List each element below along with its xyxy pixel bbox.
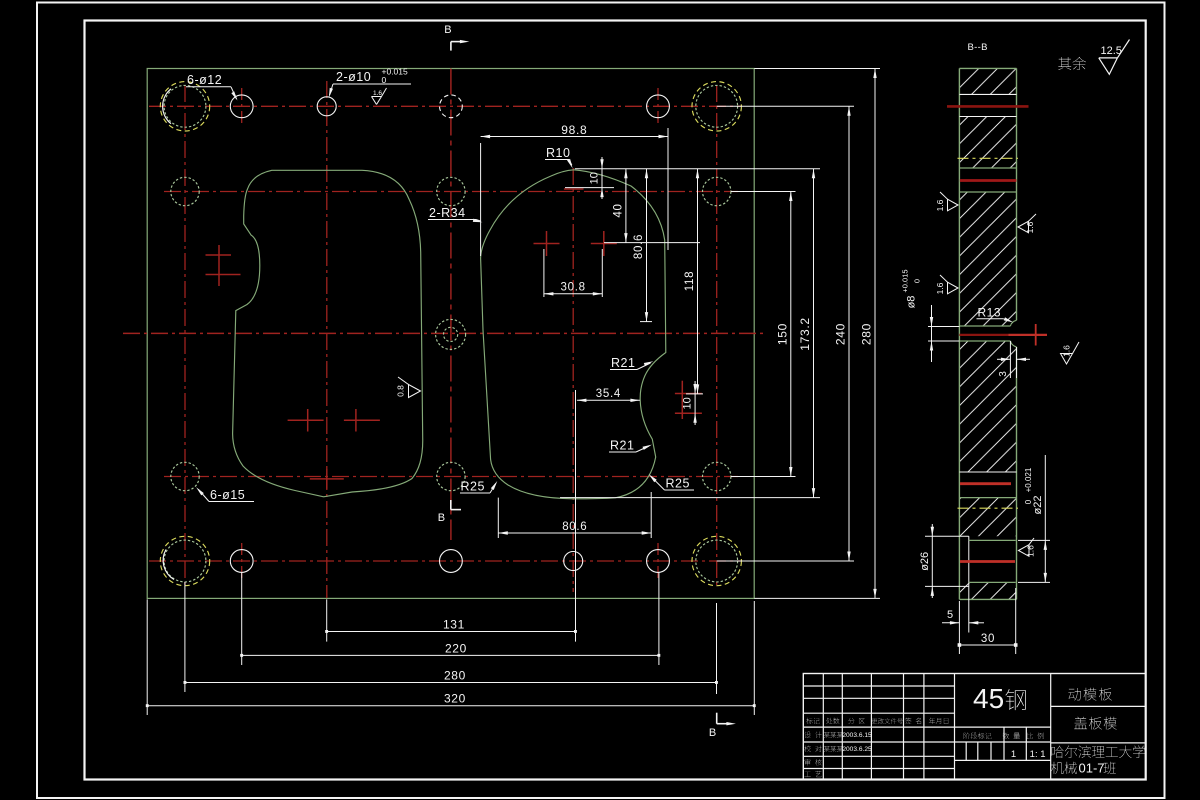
svg-text:1.6: 1.6 — [1026, 545, 1036, 557]
dim 10 offset pair — [694, 381, 696, 425]
counterbore top-right ø26 dashed — [692, 82, 741, 131]
red cross R13 center — [1035, 324, 1037, 346]
svg-text:30.8: 30.8 — [561, 282, 586, 294]
hole ø10 top x=326.7 — [317, 97, 336, 116]
svg-text:+0.015: +0.015 — [901, 269, 910, 292]
section red centerline y=334.9 — [959, 334, 1008, 336]
class 机械01-7班 — [1051, 762, 1077, 774]
dim 30.8 — [543, 249, 545, 297]
section red line y=561.5 — [960, 560, 1015, 563]
roughness 1.6 at ø22 — [1019, 545, 1030, 557]
section left edge — [958, 68, 960, 599]
hole ø12 bottom x=451 — [440, 550, 463, 573]
svg-text:1.6: 1.6 — [1062, 345, 1072, 357]
roughness 0.8 on left cavity edge — [409, 385, 421, 398]
hole ø12 bottom x=241.7 — [230, 550, 253, 573]
svg-text:80.6: 80.6 — [562, 521, 587, 533]
centerline col x=658 bottom — [657, 543, 659, 580]
centerline col x=241.7 bottom — [241, 543, 243, 580]
svg-text:R21: R21 — [610, 439, 634, 453]
centerline row1 y=106 — [149, 105, 742, 107]
centerline main horizontal — [123, 332, 766, 334]
svg-text:ø26: ø26 — [919, 552, 931, 571]
title 盖板模 — [1074, 717, 1116, 730]
center mark left of cavity upper — [206, 254, 232, 256]
section feature line y=94.4 — [959, 93, 1016, 95]
svg-text:150: 150 — [775, 323, 789, 345]
title block row labels — [804, 732, 821, 739]
dim 240 — [717, 105, 854, 107]
guide hole top-right ø22 — [696, 85, 738, 127]
dim 5 counterbore depth — [969, 622, 984, 624]
svg-text:6-ø12: 6-ø12 — [187, 73, 222, 87]
dim 35.4 — [577, 399, 640, 401]
svg-text:R25: R25 — [666, 477, 690, 491]
section feature line y=168 — [959, 167, 1016, 169]
plate outline 320x280 — [147, 69, 754, 599]
svg-text:R25: R25 — [461, 480, 485, 494]
section right edge lower — [1016, 347, 1018, 599]
center mark left cavity bottom — [310, 478, 344, 480]
svg-text:280: 280 — [860, 323, 874, 345]
section feature line y=497.6 — [959, 497, 1016, 499]
dim ø26 — [931, 524, 933, 598]
centerline col x=573 right cavity — [572, 168, 574, 592]
hole ø12 top x=241.7 — [230, 95, 253, 118]
dim 131 — [326, 599, 328, 641]
dim 220 — [241, 572, 243, 665]
title block middle verticals — [1003, 727, 1005, 760]
hole ø15 row2 right — [703, 177, 731, 205]
section line B-B x=451 — [450, 69, 452, 541]
section feature line y=116.5 — [959, 116, 1016, 118]
svg-text:98.8: 98.8 — [561, 123, 587, 137]
section ø22 hole top edge — [969, 539, 1016, 541]
svg-text:30: 30 — [981, 633, 995, 645]
svg-text:1.6: 1.6 — [1025, 221, 1035, 233]
dim 118 — [686, 393, 703, 395]
hole ø12 top middle dashed — [440, 95, 463, 118]
svg-text:1: 1: 1: 1 — [1030, 749, 1046, 760]
section counterbore ø26 top edge — [925, 535, 969, 537]
centerline col x=326.7 left cavity — [326, 81, 328, 598]
note 其余 12.5 roughness — [1058, 57, 1086, 70]
svg-text:1.6: 1.6 — [935, 282, 945, 294]
guide hole top-left ø22 — [164, 85, 206, 127]
svg-text:2-R34: 2-R34 — [429, 206, 466, 220]
svg-text:320: 320 — [444, 692, 466, 706]
hole ø15 row2 middle — [437, 177, 465, 205]
title block left table rows — [803, 685, 954, 687]
svg-text:2003.6.25: 2003.6.25 — [842, 746, 872, 753]
white arc bottom-left hole — [163, 550, 174, 580]
counterbore bottom-left ø26 dashed — [160, 536, 209, 585]
section yellow dashed y=158.3 — [958, 157, 1019, 159]
center mark left of cavity lower — [206, 274, 241, 276]
dim 3 notch depth — [1009, 341, 1011, 378]
svg-text:ø22: ø22 — [1032, 496, 1044, 515]
section top edge — [959, 67, 1016, 69]
title block outline — [803, 674, 1145, 780]
svg-text:240: 240 — [834, 323, 848, 345]
svg-text:B: B — [444, 24, 451, 36]
section yellow dashed y=508.2 — [958, 507, 1019, 509]
svg-text:5: 5 — [947, 609, 953, 621]
title block header row texts — [806, 718, 819, 724]
svg-text:B--B: B--B — [968, 42, 988, 53]
hole ø12 bottom x=658 — [647, 550, 670, 573]
centerline col x=241.7 top — [241, 88, 243, 125]
left cavity outline — [233, 170, 423, 497]
centerline col x=716.7 — [716, 85, 718, 588]
section arrow B bottom-right — [716, 713, 718, 724]
svg-text:35.4: 35.4 — [596, 388, 621, 400]
section ø22 hole bottom edge — [969, 581, 1016, 583]
title block main verticals — [954, 674, 956, 780]
right cavity outline — [481, 170, 666, 499]
section red line y=483.7 — [960, 482, 1011, 485]
white arc top-left hole — [163, 89, 171, 124]
section jog mark B bottom-left — [450, 500, 452, 510]
dim ø8 +0.015 — [928, 326, 959, 328]
svg-text:B: B — [438, 512, 445, 524]
svg-text:1.6: 1.6 — [373, 90, 382, 97]
hole ø15 row4 right — [703, 462, 731, 490]
svg-text:01-7: 01-7 — [1079, 761, 1105, 776]
counterbore top-left ø26 dashed — [160, 82, 209, 131]
hole ø15 row2 left — [171, 177, 199, 205]
hole ø15 row4 middle — [437, 462, 465, 490]
centerline col x=658 top — [657, 88, 659, 125]
section counterbore step x=968.8 — [968, 536, 970, 632]
roughness mark under 2-ø10 — [372, 96, 382, 98]
svg-text:10: 10 — [682, 397, 694, 409]
dim 10 below peak — [565, 187, 614, 189]
svg-text:131: 131 — [443, 618, 465, 632]
svg-text:45: 45 — [973, 683, 1004, 714]
svg-text:R13: R13 — [978, 306, 1002, 320]
hole ø15 row4 left — [171, 462, 199, 490]
roughness 1.6 right of section upper — [1018, 221, 1029, 233]
center mark pair in left cavity — [288, 419, 324, 421]
center hole ø8 — [444, 327, 458, 341]
svg-text:0: 0 — [1024, 499, 1033, 504]
section right edge upper — [1016, 68, 1018, 320]
section bottom edge — [959, 598, 1016, 600]
section red line y=180.5 — [960, 179, 1017, 182]
title 动模板 — [1068, 688, 1111, 701]
svg-text:118: 118 — [684, 271, 696, 291]
hole ø10 bottom x=573 — [564, 552, 583, 571]
ext line y=168.7 from R10 peak — [575, 168, 820, 170]
svg-text:B: B — [709, 727, 716, 739]
dim 30 section width — [1015, 588, 1017, 654]
svg-text:2003.6.15: 2003.6.15 — [842, 732, 872, 739]
svg-text:3: 3 — [998, 371, 1009, 377]
centerline row4 y=476.5 — [164, 476, 738, 478]
svg-text:10: 10 — [589, 172, 601, 184]
svg-text:2-ø10: 2-ø10 — [336, 70, 371, 84]
center mark R10 center — [564, 188, 584, 190]
roughness 1.6 right below R13 — [1061, 354, 1073, 365]
svg-text:1: 1 — [1011, 749, 1016, 760]
svg-text:R10: R10 — [546, 146, 570, 160]
section red line y=106.4 — [947, 105, 1029, 108]
hole ø12 top x=658 — [647, 95, 670, 118]
roughness 1.6 left of section at ø8 — [948, 282, 959, 294]
svg-text:1.6: 1.6 — [935, 199, 945, 211]
svg-text:80.6: 80.6 — [633, 234, 645, 259]
centerline col x=185 — [184, 85, 186, 588]
title block middle rows — [955, 726, 1051, 728]
section ø8 hole top edge with R13 arc — [959, 325, 1010, 327]
center mark pair in right cavity — [534, 243, 560, 245]
svg-text:ø8: ø8 — [906, 296, 918, 309]
title block middle labels — [964, 733, 992, 740]
roughness 1.6 left of section upper — [948, 199, 959, 211]
section counterbore ø26 bottom edge — [925, 585, 969, 587]
school 哈尔滨理工大学 — [1052, 745, 1145, 758]
svg-text:0: 0 — [913, 279, 922, 283]
dim 150 — [731, 191, 796, 193]
section feature line y=192 — [959, 191, 1016, 193]
centerline row5 y=561 — [149, 560, 742, 562]
svg-text:40: 40 — [613, 203, 625, 217]
section feature line y=472 — [959, 471, 1016, 473]
dim 280 right — [754, 68, 880, 70]
dim 80.6 bottom — [497, 498, 499, 538]
center marks 10-offset right cavity — [675, 393, 702, 395]
guide hole bottom-left ø22 — [164, 540, 206, 582]
svg-text:280: 280 — [444, 669, 466, 683]
counterbore bottom-right ø26 dashed — [692, 536, 741, 585]
ext line y=243.5 — [604, 242, 700, 244]
svg-text:R21: R21 — [611, 356, 635, 370]
designer names and dates — [824, 732, 843, 738]
ext line y=497.5 cavity bottom — [560, 497, 820, 499]
title block right rows — [1051, 705, 1146, 707]
center hole ø15 counterbore — [436, 319, 466, 349]
title block left table columns — [822, 674, 824, 780]
dim 40 — [625, 169, 627, 243]
centerline row2 y=191.5 — [164, 191, 738, 193]
svg-text:0.8: 0.8 — [396, 385, 406, 397]
svg-text:173.2: 173.2 — [798, 317, 812, 351]
svg-text:6-ø15: 6-ø15 — [210, 488, 245, 502]
svg-text:220: 220 — [445, 642, 467, 656]
dim 80.6 vertical — [640, 321, 652, 323]
dim ø22 +0.021 — [1018, 539, 1050, 541]
svg-text:+0.021: +0.021 — [1024, 467, 1033, 492]
dim 320 — [146, 599, 148, 715]
dim 98.8 — [480, 143, 482, 256]
dim 280 bottom — [184, 582, 186, 692]
dim 173.2 — [813, 169, 815, 498]
section ø8 hole bottom edge with R13 arc — [959, 340, 1010, 342]
guide hole bottom-right ø22 — [696, 540, 738, 582]
